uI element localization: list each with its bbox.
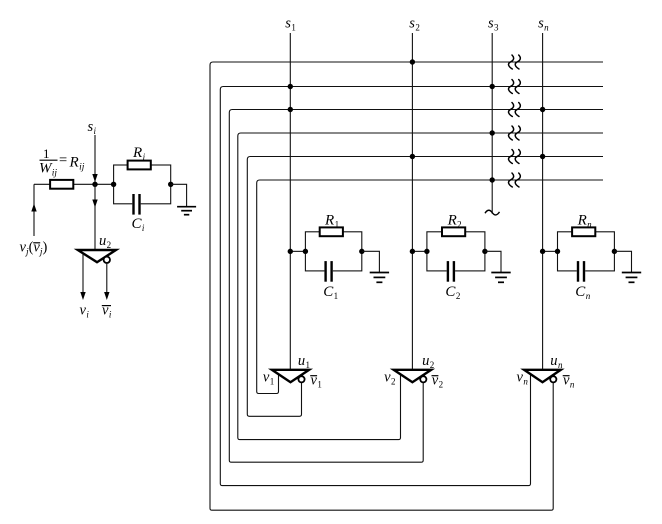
arrowhead v_i: [80, 292, 85, 300]
op-amp u_1: [272, 370, 309, 382]
break squiggle on row 5: [509, 150, 514, 164]
wire feedback loop v_2 output to row 4: [238, 133, 603, 440]
wire column s_2: [411, 33, 413, 370]
wire s to RC block n: [543, 250, 558, 252]
junction s_1 row 3: [288, 107, 293, 112]
junction node right RC block 2: [482, 249, 487, 254]
junction s_2 row 5: [410, 154, 415, 159]
capacitor C_i: [132, 202, 140, 206]
junction node left RC block 1: [303, 249, 308, 254]
resistor R_2: [442, 227, 465, 236]
break squiggle on row 3: [509, 103, 514, 117]
inverting bubble u_2: [420, 376, 426, 382]
wire feedback loop v_n bar output to row 1: [210, 62, 603, 510]
ground block 2: [491, 272, 510, 274]
wire main horizontal: [34, 183, 114, 185]
wire s to RC block 2: [412, 250, 427, 252]
wire to ground block 2: [485, 251, 501, 272]
junction node s column block 2: [410, 249, 415, 254]
junction s_n row 5: [540, 154, 545, 159]
junction s_1 row 2: [288, 84, 293, 89]
wire column s_1: [289, 33, 291, 370]
wire s to RC block 1: [290, 250, 305, 252]
junction s_2 row 1: [410, 59, 415, 64]
wire column s_n: [542, 33, 544, 370]
ground block 1: [370, 272, 389, 274]
svg-text:1: 1: [43, 146, 50, 161]
capacitor C_1: [324, 269, 332, 273]
arrowhead to op-amp: [92, 200, 97, 208]
op-amp u_2: [394, 370, 432, 382]
junction s_3 row 6: [490, 177, 495, 182]
break squiggle on row 1: [509, 55, 514, 69]
inverting bubble u_1: [298, 376, 304, 382]
wire RC loop block 1: [305, 232, 361, 271]
junction node s_i / main wire: [92, 182, 97, 187]
resistor R_i: [128, 161, 151, 170]
op-amp u_n: [524, 370, 561, 382]
junction s_n row 3: [540, 107, 545, 112]
arrowhead input v_j: [31, 204, 36, 212]
wire input from v_j: [33, 184, 35, 236]
tilde break end of s_3: [485, 210, 500, 215]
break squiggle on row 6: [509, 173, 514, 187]
capacitor C_n: [577, 269, 585, 273]
wire to ground left circuit: [171, 184, 187, 206]
wire feedback loop v_n output to row 2: [220, 87, 603, 486]
junction node left RC block n: [555, 249, 560, 254]
ground left circuit: [177, 206, 196, 208]
wire column s_3: [491, 33, 493, 214]
wire output v_i bar: [106, 263, 108, 293]
arrowhead on s_i wire: [92, 174, 97, 182]
wire feedback loop v_1 output to row 6: [257, 180, 603, 394]
svg-text:=: =: [59, 152, 67, 168]
wire RC loop block n: [558, 232, 615, 271]
junction node left of RC loop: [111, 182, 116, 187]
wire junction to op-amp input: [94, 184, 96, 250]
op-amp u_i left circuit: [78, 250, 116, 262]
junction node right of RC loop: [168, 182, 173, 187]
wire RC loop block 2: [427, 232, 485, 271]
junction node right RC block n: [612, 249, 617, 254]
wire RC loop left circuit: [114, 165, 171, 204]
resistor R_ij: [50, 180, 73, 189]
resistor R_1: [320, 227, 343, 236]
junction node left RC block 2: [424, 249, 429, 254]
wire feedback loop v_1 bar output to row 5: [247, 157, 603, 417]
junction node s column block 1: [288, 249, 293, 254]
arrowhead v_i bar: [104, 292, 109, 300]
junction node right RC block 1: [359, 249, 364, 254]
resistor R_n: [572, 227, 595, 236]
wire to ground block n: [614, 251, 631, 272]
ground block n: [622, 272, 641, 274]
capacitor C_2: [447, 269, 455, 273]
junction node s column block n: [540, 249, 545, 254]
inverting bubble u_n: [550, 376, 556, 382]
wire output v_i: [82, 254, 84, 293]
junction s_3 row 4: [490, 130, 495, 135]
wire feedback loop v_2 bar output to row 3: [229, 110, 603, 463]
junction s_3 row 2: [490, 84, 495, 89]
wire to ground block 1: [362, 251, 380, 272]
break squiggle on row 2: [509, 80, 514, 94]
inverting bubble left op-amp: [104, 257, 110, 263]
wire s_i vertical into junction: [94, 135, 96, 184]
break squiggle on row 4: [509, 126, 514, 140]
